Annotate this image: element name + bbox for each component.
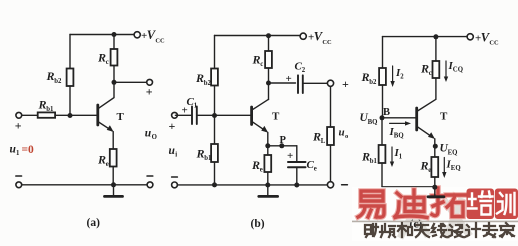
label UEQ (c): [440, 143, 458, 157]
svg-text:+: +: [286, 73, 292, 85]
slogan char 频: [380, 224, 395, 237]
svg-text:=0: =0: [22, 144, 35, 156]
resistor Rb2 (b): [211, 69, 218, 86]
label T (c): [440, 111, 448, 123]
terminal +Vcc (b): [300, 33, 306, 39]
watermark logo block 训: [495, 189, 518, 220]
svg-text:L: L: [321, 138, 326, 145]
wire collector to output (a): [114, 81, 147, 83]
current arrow IEQ (c): [443, 158, 445, 173]
svg-text:c: c: [429, 70, 432, 77]
svg-text:R: R: [420, 62, 429, 76]
resistor Re (b): [267, 146, 269, 185]
resistor RL (b): [330, 86, 332, 181]
node Re bottom (b): [265, 183, 270, 188]
svg-text:CC: CC: [322, 39, 332, 46]
label IEQ (c): [446, 159, 461, 173]
label Rb2 (a): [46, 69, 62, 85]
wire bottom rail (c): [382, 186, 435, 189]
svg-text:b1: b1: [46, 106, 54, 113]
wire emitter down (a): [112, 132, 114, 185]
label Rb2 (c): [361, 70, 377, 86]
svg-text:2: 2: [400, 74, 404, 81]
terminal output top (b): [327, 80, 333, 86]
transistor T (b) bar: [250, 107, 253, 125]
wire Rb1 to base (a): [55, 114, 98, 116]
wire C1 to base (b): [197, 114, 252, 116]
svg-text:CQ: CQ: [453, 67, 463, 74]
slogan char 射: [365, 224, 378, 237]
wire Rb2 branch (c): [382, 37, 384, 118]
wire top rail (b): [215, 35, 301, 37]
wire C2 to output (b): [303, 82, 328, 84]
terminal output bottom (b): [327, 182, 333, 188]
transistor T (a) collector: [98, 82, 114, 109]
capacitor C1 (b): [192, 107, 197, 125]
wire base (c): [382, 117, 417, 119]
svg-text:e: e: [428, 167, 431, 174]
label + before C2 (b): [286, 73, 292, 85]
ground (a): [113, 185, 115, 196]
transistor T (b) emitter with arrow: [252, 121, 267, 131]
label P (b): [280, 135, 287, 146]
watermark logo char 拓: [432, 188, 465, 217]
resistor Rc (b): [268, 36, 270, 100]
slogan char 家: [500, 223, 514, 237]
svg-text:O: O: [152, 134, 157, 141]
label minus input (b): [172, 176, 178, 178]
current arrow ICQ (c): [445, 61, 447, 77]
label Re (c): [420, 159, 432, 175]
svg-text:P: P: [280, 135, 287, 146]
resistor Rb2 (a): [67, 69, 74, 87]
svg-text:1: 1: [194, 102, 198, 109]
svg-text:b2: b2: [369, 79, 377, 86]
label ui (b): [169, 145, 178, 159]
slogan char 专: [483, 223, 497, 237]
svg-text:BQ: BQ: [368, 119, 378, 126]
label UBQ (c): [360, 112, 378, 126]
svg-text:R: R: [420, 159, 429, 173]
label C1 (b): [187, 96, 198, 109]
svg-text:T: T: [440, 111, 448, 123]
label T (b): [272, 111, 280, 123]
svg-text:b2: b2: [54, 78, 62, 85]
label +Vcc (b): [308, 30, 332, 46]
node bottom rail (c): [432, 185, 437, 190]
svg-text:(a): (a): [87, 217, 101, 229]
svg-text:EQ: EQ: [451, 165, 461, 172]
svg-text:CC: CC: [489, 40, 499, 47]
label Re (b): [251, 158, 263, 174]
node collector (b): [266, 81, 271, 86]
resistor Rc (c): [435, 37, 437, 100]
svg-text:+: +: [287, 150, 293, 162]
current arrow IBQ (c): [390, 122, 406, 124]
wire input to Rb1 (a): [22, 114, 38, 116]
svg-text:e: e: [314, 165, 317, 172]
watermark logo char 易: [358, 191, 384, 217]
label + before C1 (b): [182, 105, 188, 117]
ghost watermark shapes: [400, 196, 470, 238]
node top rail / Rc junction (a): [112, 32, 117, 37]
ground (c): [428, 187, 444, 197]
node bottom rail (a): [111, 182, 116, 187]
resistor Rb1 (a): [38, 112, 55, 117]
label I1 (c): [394, 147, 403, 161]
node top rail (b): [266, 33, 271, 38]
terminal +Vcc (c): [467, 34, 473, 40]
capacitor Ce (b): [296, 146, 298, 185]
svg-text:c: c: [260, 61, 263, 68]
slogan char 和: [398, 223, 412, 237]
wire emitter node to Ce branch (b): [268, 145, 297, 147]
transistor T (b) collector: [252, 99, 269, 110]
label B (c): [383, 107, 390, 118]
svg-text:i: i: [175, 152, 177, 159]
label minus output (b): [342, 184, 348, 186]
svg-text:+: +: [146, 85, 153, 99]
svg-text:B: B: [383, 107, 390, 118]
watermark backing band: [352, 187, 518, 241]
svg-text:e: e: [106, 161, 109, 168]
terminal +Vcc (a): [134, 32, 140, 38]
label minus input (a): [16, 175, 22, 177]
svg-text:1: 1: [16, 150, 20, 157]
svg-text:CC: CC: [155, 38, 165, 45]
terminal output top (a): [147, 79, 153, 85]
node P (b): [279, 143, 284, 148]
watermark slogan 射频和天线设计专家: [365, 223, 514, 237]
label uO (a): [145, 128, 157, 142]
svg-text:R: R: [196, 147, 205, 161]
caption (c): [410, 219, 423, 231]
node emitter (c): [433, 144, 438, 149]
wire collector to C2 (b): [269, 82, 296, 84]
slogan char 天: [415, 225, 429, 237]
svg-text:e: e: [260, 167, 263, 174]
label C2 (b): [295, 61, 306, 74]
label I2 (c): [395, 67, 404, 81]
svg-text:o: o: [345, 133, 348, 140]
label Rc (c): [420, 62, 432, 78]
terminal output bottom (a): [147, 182, 153, 188]
svg-text:R: R: [361, 70, 370, 84]
label +Vcc (a): [141, 28, 165, 44]
label + Ce (b): [287, 150, 293, 162]
label uo (b): [339, 127, 349, 141]
label u1 = 0: [10, 144, 35, 158]
watermark logo block 培: [467, 189, 495, 220]
label IBQ (c): [389, 126, 404, 140]
svg-text:R: R: [46, 69, 55, 83]
slogan char 计: [465, 223, 480, 237]
label RL (b): [312, 130, 326, 146]
slogan char 线: [432, 224, 446, 237]
label Rb1 (b): [196, 147, 212, 163]
node top rail (c): [433, 34, 438, 39]
label minus output (a): [147, 175, 153, 177]
svg-text:R: R: [195, 71, 204, 85]
resistor Rb1 (b): [214, 116, 216, 185]
svg-text:R: R: [252, 53, 261, 67]
wire top rail (c): [383, 36, 468, 38]
label + output (b): [342, 77, 349, 91]
watermark logo char 迪: [395, 190, 427, 218]
svg-text:u: u: [339, 127, 345, 139]
svg-text:R: R: [38, 98, 47, 112]
wire emitter down (b): [267, 132, 269, 145]
svg-text:+: +: [169, 119, 176, 133]
svg-text:T: T: [272, 111, 280, 123]
label Rb1 (c): [361, 150, 377, 166]
svg-text:1: 1: [399, 154, 403, 161]
label Rb1 (a): [38, 98, 54, 114]
capacitor C2 (b): [298, 75, 303, 93]
svg-text:+: +: [342, 77, 349, 91]
label T (a): [117, 111, 125, 123]
label + below input (b): [169, 119, 176, 133]
wire input to C1 (b): [175, 114, 191, 116]
svg-text:R: R: [361, 150, 370, 164]
wire bottom rail (b): [177, 184, 327, 186]
terminal input bottom (b): [172, 182, 178, 188]
label +Vcc (c): [475, 30, 499, 46]
svg-text:R: R: [251, 158, 260, 172]
label ICQ (c): [448, 60, 464, 74]
wire Rb2 branch (b): [214, 36, 216, 116]
node Ce bottom (b): [294, 183, 299, 188]
resistor Re (a): [110, 149, 117, 167]
wire bottom rail (a): [22, 184, 147, 186]
transistor T (a) bar: [96, 105, 99, 125]
label + input (a): [15, 118, 22, 132]
svg-text:BQ: BQ: [394, 133, 404, 140]
label Ce (b): [307, 159, 317, 172]
svg-text:R: R: [97, 51, 106, 65]
terminal input top (a): [16, 112, 22, 118]
caption (b): [251, 218, 265, 230]
label Rb2 (b): [195, 71, 211, 87]
label Re (a): [97, 153, 109, 169]
terminal input bottom (a): [16, 182, 22, 188]
node emitter (b): [265, 143, 270, 148]
terminal input top (b): [172, 112, 178, 118]
svg-text:2: 2: [302, 67, 306, 74]
svg-text:b1: b1: [204, 155, 212, 162]
transistor T (c) bar: [415, 108, 418, 130]
node Rb1 bottom (b): [212, 182, 217, 187]
wire Rb2 branch (a): [69, 35, 71, 116]
current arrow I1 (c): [391, 147, 393, 162]
resistor Rc (a): [113, 35, 115, 83]
node base B (c): [380, 115, 385, 120]
wire emitter down (c): [434, 139, 436, 188]
ground (b): [267, 185, 269, 196]
label Rc (b): [252, 53, 264, 69]
svg-text:b1: b1: [370, 158, 378, 165]
svg-text:b2: b2: [204, 80, 212, 87]
slogan char 设: [448, 225, 463, 237]
node collector (a): [112, 80, 117, 85]
svg-text:+: +: [15, 118, 22, 132]
current arrow I2 (c): [392, 66, 394, 82]
watermark underline: [352, 220, 518, 222]
node base junction (a): [68, 113, 73, 118]
transistor T (c) collector: [417, 99, 436, 111]
svg-text:R: R: [312, 130, 321, 144]
svg-text:(b): (b): [251, 218, 265, 230]
svg-text:c: c: [106, 59, 109, 66]
label + output (a): [146, 85, 153, 99]
caption (a): [87, 217, 101, 229]
transistor T (c) emitter with arrow: [417, 126, 434, 137]
svg-text:T: T: [117, 111, 125, 123]
transistor T (a) emitter with arrow: [98, 122, 112, 131]
resistor Re (c): [431, 157, 438, 177]
wire top rail (a): [70, 34, 134, 36]
resistor Rb2 (c): [379, 68, 386, 85]
label Rc (a): [97, 51, 109, 67]
svg-text:R: R: [97, 153, 106, 167]
node base junction (b): [212, 113, 217, 118]
resistor Rb1 (c): [381, 118, 383, 187]
svg-text:EQ: EQ: [448, 149, 458, 156]
